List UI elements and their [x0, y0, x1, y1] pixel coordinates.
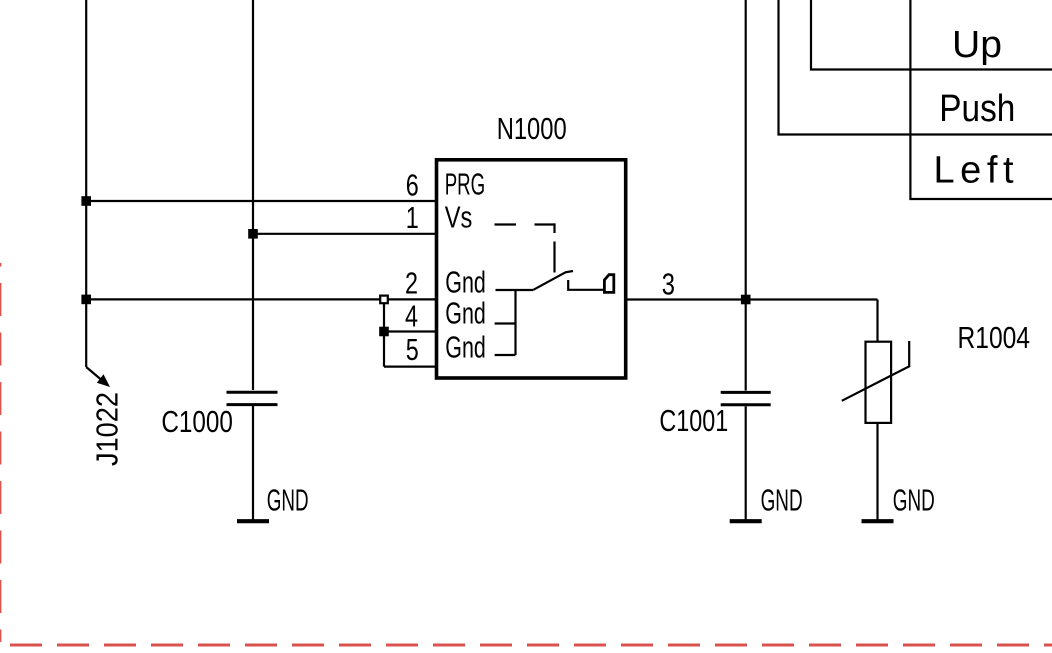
wire pin5 [384, 366, 437, 368]
svg-text:GND: GND [893, 484, 935, 518]
node junction V3/pin3 [741, 295, 751, 305]
svg-text:Up: Up [952, 24, 1002, 66]
svg-text:Gnd: Gnd [445, 296, 486, 330]
ground under C1000 [237, 519, 269, 523]
wire internal row1 [496, 289, 534, 291]
wire J1022 diagonal [86, 367, 104, 383]
svg-text:6: 6 [406, 167, 419, 202]
wire pin3 horizontal [626, 298, 878, 300]
svg-text:C1001: C1001 [659, 404, 728, 438]
capacitor C1000 [227, 392, 278, 404]
ground under C1001 [730, 519, 762, 523]
svg-text:GND: GND [761, 484, 803, 518]
boundary red dashed left [0, 263, 1, 642]
connector J1022 arrowhead [97, 374, 110, 387]
node junction V1/H1 [81, 196, 91, 206]
svg-text:PRG: PRG [445, 168, 485, 202]
node junction pin4 [379, 327, 389, 337]
wire H1 pin6 [86, 200, 436, 202]
wire V3 pin3 net vertical [745, 0, 747, 391]
switch contact bracket [568, 280, 604, 290]
svg-text:GND: GND [267, 484, 309, 518]
svg-text:1: 1 [406, 200, 419, 235]
switch internals of N1000 [495, 223, 605, 355]
op IC N1000 body [437, 160, 626, 378]
svg-text:N1000: N1000 [497, 112, 567, 146]
svg-text:Vs: Vs [445, 201, 473, 235]
svg-text:Gnd: Gnd [445, 331, 486, 365]
svg-text:C1000: C1000 [161, 405, 233, 439]
capacitor C1001 [721, 392, 771, 404]
wire C1000 bottom [252, 405, 254, 519]
resistor R1004 varistor [866, 342, 892, 423]
svg-text:J1022: J1022 [90, 392, 125, 466]
boundary red dashed bottom [10, 644, 1052, 647]
wire V2 second vertical [252, 0, 254, 390]
svg-text:Gnd: Gnd [445, 266, 486, 300]
wire V1 left vertical [85, 0, 87, 367]
switch contact symbol [604, 275, 613, 293]
node junction V2/H2 [248, 229, 258, 239]
svg-text:3: 3 [662, 266, 675, 301]
wire C1001 bottom [745, 406, 747, 519]
svg-text:R1004: R1004 [958, 321, 1031, 355]
ground under R1004 [862, 519, 894, 523]
table left edge and Left row line [910, 0, 1052, 199]
wire internal stub pin5 [495, 354, 516, 356]
wire R1004 bottom [876, 423, 878, 520]
svg-text:4: 4 [405, 299, 418, 334]
wire pin4 [384, 330, 437, 332]
wire vertical pins 2-4-5 [383, 299, 385, 366]
wire V4 to Push row [779, 0, 1052, 135]
wire V5 to Up row [811, 0, 1052, 70]
wire H3 pin2 [86, 298, 436, 300]
node open square pin2 [380, 296, 388, 304]
node junction V1/H3 [81, 295, 91, 305]
wire internal bus [514, 290, 516, 355]
switch blade [533, 271, 573, 290]
svg-text:Push: Push [939, 88, 1015, 130]
svg-text:5: 5 [406, 332, 419, 367]
dashed actuator vertical [553, 242, 555, 273]
wire drop to R1004 [876, 300, 878, 342]
wire H2 pin1 [253, 233, 437, 235]
dashed actuator horizontal [495, 223, 517, 225]
svg-text:2: 2 [405, 265, 418, 300]
wire internal stub pin4 [495, 322, 516, 324]
